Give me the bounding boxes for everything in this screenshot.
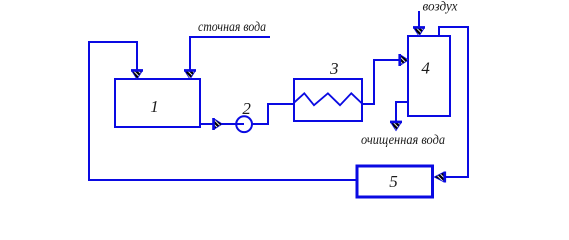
wire pump to heat exchanger 3: [252, 104, 294, 124]
arrowhead C right after box1 outlet: [214, 118, 223, 130]
arrowhead G left into box5 right: [434, 172, 445, 183]
svg-text:очищенная вода: очищенная вода: [361, 133, 445, 148]
svg-text:2: 2: [242, 99, 251, 118]
arrowhead D right into box4 left: [400, 54, 409, 66]
wire воздух inlet: [418, 11, 420, 28]
wire сточная вода inlet: [190, 37, 270, 72]
wire feedback: box5 left to box1 top arrow A: [89, 42, 356, 180]
box 4 column: [408, 36, 450, 116]
arrowhead F очищенная вода down: [390, 122, 402, 131]
wire box4 top to box5 right: [439, 27, 468, 177]
pump circle 2: [236, 116, 252, 132]
svg-text:сточная вода: сточная вода: [198, 20, 266, 35]
svg-text:1: 1: [150, 97, 159, 116]
zigzag coil in box 3: [294, 93, 362, 105]
arrowhead B down into box1 top right (сточная вода): [184, 70, 196, 79]
box 1: [115, 79, 200, 127]
arrowhead A down into box1 top left: [131, 70, 143, 79]
wire box1 outlet to pump circle: [200, 123, 244, 125]
box 5: [357, 166, 433, 197]
svg-text:5: 5: [389, 172, 398, 191]
wire box4 outlet to очищенная вода arrow: [396, 102, 408, 122]
wire heat exchanger 3 to column 4: [362, 60, 401, 104]
svg-text:3: 3: [329, 59, 339, 78]
svg-text:4: 4: [421, 59, 430, 78]
arrowhead E воздух down into box4 top: [413, 27, 425, 36]
box 3 heat exchanger: [294, 79, 362, 121]
svg-text:воздух: воздух: [423, 0, 459, 15]
